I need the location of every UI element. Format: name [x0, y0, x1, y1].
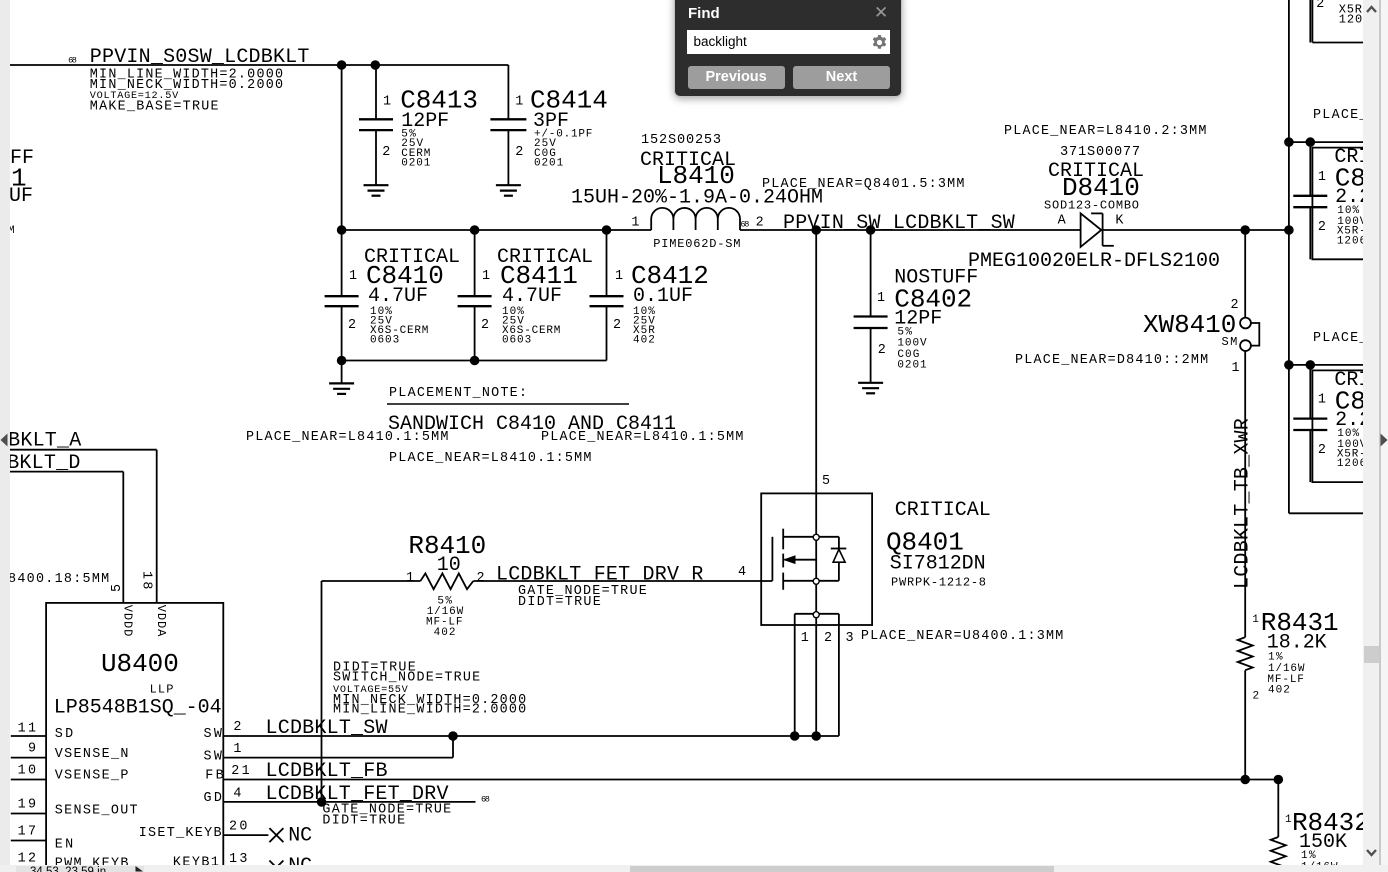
wire net LCDBKLT_FET_DRV: [223, 801, 475, 803]
junction dot LCDBKLT_SW x453: [449, 732, 458, 741]
ground below C8410: [329, 361, 354, 394]
value SI7812DN: [890, 552, 986, 575]
property text DIDT=TRUE (gate): [518, 595, 601, 610]
svg-text:PLACE_NEAR=Q8401.5:3MM: PLACE_NEAR=Q8401.5:3MM: [762, 177, 964, 192]
svg-text:SOD123-COMBO: SOD123-COMBO: [1044, 199, 1139, 213]
wire Q8401 pin2 to LCDBKLT_SW: [815, 625, 817, 736]
IC U8400 pin 13 no-connect: [223, 852, 312, 872]
capacitor C8402: [854, 230, 979, 383]
svg-text:LP8548B1SQ_-04: LP8548B1SQ_-04: [54, 697, 222, 720]
vertical scrollbar down arrow: [1365, 847, 1378, 859]
Find dialog search input: [687, 30, 890, 55]
IC U8400 pin 19 SENSE_OUT: [11, 798, 138, 819]
partial left-edge value UF: [9, 185, 33, 208]
wire stub to right cap group 2: [1289, 364, 1388, 366]
svg-text:1: 1: [877, 291, 885, 306]
svg-text:1/16W: 1/16W: [1268, 663, 1305, 675]
svg-text:PLACE_NEAR=L8410.2:3MM: PLACE_NEAR=L8410.2:3MM: [1004, 124, 1206, 139]
svg-text:PLACE_NEAR=L8410.1:5MM: PLACE_NEAR=L8410.1:5MM: [541, 430, 743, 445]
wire net PPVIN_S0SW_LCDBKLT top rail: [10, 64, 508, 66]
svg-text:402: 402: [633, 335, 655, 347]
net label LCDBKLT_FET_DRV: [266, 783, 490, 806]
svg-text:0201: 0201: [401, 158, 431, 170]
svg-text:LCDBKLT_TB_XWR: LCDBKLT_TB_XWR: [1232, 418, 1255, 589]
property text MAKE_BASE=TRUE: [90, 99, 219, 114]
wire net BKLT_A to VDDA: [10, 450, 157, 603]
wire main rail PPVIN_SW_LCDBKLT_SW: [342, 229, 1289, 231]
capacitor C8414: [490, 65, 607, 185]
svg-text:LCDBKLT_FB: LCDBKLT_FB: [266, 760, 388, 783]
svg-text:0201: 0201: [534, 158, 564, 170]
window right gutter: [1381, 0, 1388, 872]
svg-text:1: 1: [233, 742, 241, 757]
svg-text:0603: 0603: [370, 335, 399, 347]
wire net LCDBKLT_FB: [223, 779, 1278, 781]
wire pin 1 SW to LCDBKLT_SW: [223, 736, 453, 758]
junction dot at top rail x341: [337, 61, 346, 70]
svg-text:21: 21: [231, 764, 249, 779]
transistor Q8401 (MOSFET with body diode): [761, 493, 872, 646]
svg-text:FB: FB: [205, 769, 223, 784]
svg-text:PLACE_NEAR=U8400.1:3MM: PLACE_NEAR=U8400.1:3MM: [861, 629, 1063, 644]
junction dot FB rail x1278: [1274, 775, 1283, 784]
svg-text:NC: NC: [288, 825, 312, 848]
svg-text:SI7812DN: SI7812DN: [890, 552, 986, 575]
svg-text:2: 2: [613, 318, 621, 333]
IC U8400 right pin name FB y778.5: [205, 769, 223, 784]
svg-text:0201: 0201: [897, 359, 927, 371]
svg-text:19: 19: [18, 798, 36, 813]
junction dot cap group 1 lead: [1306, 138, 1315, 147]
svg-text:2: 2: [756, 215, 764, 230]
svg-text:20: 20: [229, 820, 247, 835]
Previous button: [688, 66, 785, 89]
wire LCDBKLT_FET_DRV to R8410: [322, 581, 421, 802]
svg-text:BKLT_D: BKLT_D: [7, 452, 80, 475]
IC U8400 pin 9 VSENSE_N: [11, 742, 129, 762]
IC U8400 right pin name SW y759.7: [204, 750, 223, 765]
capacitor C8412: [590, 230, 709, 361]
svg-text:A: A: [1058, 214, 1067, 229]
svg-text:1%: 1%: [1301, 850, 1316, 862]
svg-text:68: 68: [68, 56, 77, 66]
IC U8400 right pin name ISET_KEYB y836.2: [139, 826, 222, 841]
net label LCDBKLT_FB: [266, 760, 388, 783]
svg-text:4.7UF: 4.7UF: [368, 285, 428, 308]
svg-text:2: 2: [481, 318, 489, 333]
ground below C8402: [858, 383, 883, 394]
placement text PLACE_NEAR=L8410.1:5MM (lower): [389, 451, 591, 466]
junction dot main rail x870 (C8402): [866, 226, 875, 235]
svg-text:1: 1: [1232, 361, 1240, 376]
net label BKLT_A (cut): [8, 430, 81, 453]
refdes U8400: [101, 649, 179, 679]
package PWRPK-1212-8: [891, 576, 986, 590]
capacitor group top-right (cut off): [1310, 0, 1388, 43]
svg-text:2: 2: [477, 571, 485, 586]
junction dot main rail x816 (Q8401 drain): [812, 226, 821, 235]
property text VOLTAGE=12.5V: [90, 91, 179, 102]
partial left-edge text M: [8, 225, 15, 237]
svg-text:1: 1: [482, 269, 490, 284]
horizontal scrollbar thumb: [630, 866, 1054, 872]
junction dot main rail x1288 (right bus): [1285, 226, 1294, 235]
svg-text:PWRPK-1212-8: PWRPK-1212-8: [891, 576, 986, 590]
label LLP: [150, 682, 174, 696]
pan arrow left: [0, 433, 8, 447]
junction dot main rail x474: [470, 226, 479, 235]
Find dialog close button: [874, 6, 888, 20]
pin number 2 (SW): [233, 720, 241, 735]
svg-text:2: 2: [878, 343, 886, 358]
svg-text:MIN_LINE_WIDTH=2.0000: MIN_LINE_WIDTH=2.0000: [333, 703, 526, 718]
capacitor C8411: [458, 230, 593, 361]
wire net LCDBKLT_SW: [223, 735, 839, 737]
pin name VDDA: [154, 605, 168, 637]
svg-text:0603: 0603: [502, 335, 531, 347]
svg-text:BKLT_A: BKLT_A: [8, 430, 81, 453]
svg-text:SENSE_OUT: SENSE_OUT: [55, 804, 138, 819]
wire bottom rail C8410-C8412: [342, 360, 607, 362]
svg-text:5: 5: [822, 474, 830, 489]
pin number 4 (GD): [233, 787, 241, 802]
junction dot LCDBKLT_FET_DRV x321: [317, 798, 326, 807]
svg-text:PLACE_NEAR=D8410::2MM: PLACE_NEAR=D8410::2MM: [1015, 353, 1208, 368]
viewer left margin: [0, 0, 10, 872]
note underline: [387, 403, 629, 405]
pin number 1 (SW): [233, 742, 241, 757]
svg-text:MAKE_BASE=TRUE: MAKE_BASE=TRUE: [90, 99, 219, 114]
svg-text:9: 9: [28, 742, 36, 757]
svg-text:2: 2: [824, 631, 832, 646]
svg-text:SM: SM: [1222, 335, 1238, 349]
svg-text:402: 402: [434, 627, 456, 639]
net label LCDBKLT_FET_DRV_R: [496, 564, 746, 587]
junction dot cap group 2 lead: [1306, 361, 1315, 370]
svg-text:18: 18: [139, 571, 154, 589]
svg-text:2: 2: [1231, 298, 1239, 313]
svg-text:1: 1: [1318, 393, 1326, 408]
Next button: [793, 66, 890, 89]
property text MIN_NECK_WIDTH=0.2000: [90, 78, 283, 93]
svg-text:1: 1: [1252, 614, 1259, 626]
property text DIDT=TRUE (FET_DRV): [322, 814, 405, 829]
gear icon: [872, 35, 887, 50]
Find dialog title: [688, 5, 720, 22]
svg-text:11: 11: [18, 722, 36, 737]
junction dot FB rail x1245: [1241, 775, 1250, 784]
mouse cursor mark: [135, 866, 144, 872]
resistor R8432: [1271, 780, 1370, 872]
property text MIN_NECK_WIDTH=0.2000 (switch node): [333, 693, 526, 708]
svg-text:1: 1: [383, 94, 391, 109]
svg-text:PLACEMENT_NOTE:: PLACEMENT_NOTE:: [389, 386, 527, 401]
wire net LCDBKLT_TB_XWR vertical: [1244, 351, 1246, 637]
svg-text:1: 1: [801, 631, 809, 646]
partial left-edge component text FF: [10, 147, 34, 170]
label Q8401 CRITICAL: [895, 499, 991, 522]
svg-text:1: 1: [631, 215, 639, 230]
svg-text:2: 2: [382, 145, 390, 160]
placement text PLACE_NEAR=L8410.2:3MM: [1004, 124, 1206, 139]
svg-text:PPVIN_S0SW_LCDBKLT: PPVIN_S0SW_LCDBKLT: [90, 46, 310, 69]
resistor R8431: [1238, 608, 1339, 703]
vertical scrollbar thumb: [1364, 646, 1379, 663]
svg-text:VDDD: VDDD: [121, 605, 135, 637]
net label BKLT_D (cut): [7, 452, 80, 475]
svg-text:371S00077: 371S00077: [1060, 145, 1140, 160]
svg-text:1: 1: [349, 269, 357, 284]
svg-text:2: 2: [515, 145, 523, 160]
capacitor right group 1 (cut off): [1293, 142, 1388, 259]
placement text PLACE_NEAR=L8410.1:5MM (right): [541, 430, 743, 445]
property text GATE_NODE=TRUE (FET_DRV): [322, 803, 451, 818]
wire main rail to Q8401 drain pin 5: [816, 230, 830, 536]
svg-text:5: 5: [110, 584, 125, 592]
net label LCDBKLT_TB_XWR (vertical): [1232, 418, 1255, 589]
svg-text:VSENSE_P: VSENSE_P: [55, 769, 129, 784]
svg-text:152S00253: 152S00253: [641, 133, 721, 148]
capacitor C8410: [325, 230, 460, 361]
value LP8548B1SQ_-04: [54, 697, 222, 720]
wire Q8401 pin1 to LCDBKLT_SW: [794, 625, 796, 736]
svg-text:GD: GD: [204, 791, 222, 806]
property text MIN_LINE_WIDTH=2.0000: [90, 68, 283, 83]
wire R8431 to LCDBKLT_FB rail: [1244, 670, 1246, 779]
wire Q8401 pin3 to LCDBKLT_SW: [838, 625, 840, 736]
property text MIN_LINE_WIDTH=2.0000 (switch node): [333, 703, 526, 718]
IC U8400 pin 10 VSENSE_P: [11, 764, 129, 784]
svg-text:EN: EN: [55, 838, 73, 853]
pin number 18 (VDDA): [139, 571, 154, 589]
svg-text:CRITICAL: CRITICAL: [895, 499, 991, 522]
diode D8410: [968, 145, 1220, 273]
svg-text:PIME062D-SM: PIME062D-SM: [653, 237, 740, 251]
capacitor right group 2 (cut off): [1293, 365, 1388, 482]
pin name VDDD: [121, 605, 135, 637]
svg-text:4: 4: [738, 565, 746, 580]
svg-text:68: 68: [741, 220, 750, 230]
IC U8400 pin 20 no-connect: [223, 820, 312, 848]
svg-text:PMEG10020ELR-DFLS2100: PMEG10020ELR-DFLS2100: [968, 250, 1220, 273]
vertical scrollbar track: [1363, 0, 1380, 865]
net label PPVIN_S0SW_LCDBKLT: [68, 46, 309, 69]
svg-text:3: 3: [846, 631, 854, 646]
svg-text:100V: 100V: [897, 338, 927, 350]
IC U8400 pin 11 SD: [11, 722, 73, 743]
svg-text:17: 17: [18, 825, 36, 840]
svg-text:402: 402: [1268, 685, 1290, 697]
window edge line: [1379, 0, 1380, 872]
note PLACEMENT_NOTE:: [389, 386, 527, 401]
capacitor C8413: [359, 65, 478, 185]
svg-text:1: 1: [1285, 814, 1292, 826]
net label LCDBKLT_SW: [266, 717, 388, 740]
junction dot bottom rail x341: [337, 356, 346, 365]
svg-text:10: 10: [18, 764, 36, 779]
svg-text:SWITCH_NODE=TRUE: SWITCH_NODE=TRUE: [333, 671, 480, 686]
svg-text:PLACE_NEAR=L8410.1:5MM: PLACE_NEAR=L8410.1:5MM: [246, 430, 448, 445]
svg-text:1%: 1%: [1268, 652, 1283, 664]
svg-text:10: 10: [437, 554, 461, 577]
connector XW8410: [1143, 230, 1259, 376]
svg-text:2: 2: [348, 318, 356, 333]
svg-text:U8400: U8400: [101, 649, 179, 679]
net label PPVIN_SW_LCDBKLT_SW: [783, 212, 1015, 235]
placement text PLACE_NEAR=U8400.1:3MM: [861, 629, 1063, 644]
wire right vertical bus: [1289, 0, 1388, 513]
svg-text:K: K: [1115, 214, 1124, 229]
junction dot bottom rail x474: [470, 356, 479, 365]
placement text PLACE_NEAR=Q8401.5:3MM: [762, 177, 964, 192]
resistor R8410: [406, 531, 486, 639]
svg-text:PPVIN_SW_LCDBKLT_SW: PPVIN_SW_LCDBKLT_SW: [783, 212, 1015, 235]
placement text PLACE_NEAR=D8410::2MM: [1015, 353, 1208, 368]
pan arrow right: [1380, 433, 1388, 447]
svg-text:2: 2: [1318, 443, 1326, 458]
IC U8400 pin 12 PWM_KEYB: [11, 852, 129, 872]
svg-text:1: 1: [615, 269, 623, 284]
junction dot SW rail x794: [790, 732, 799, 741]
pin number 21 (FB): [231, 764, 249, 779]
svg-text:DIDT=TRUE: DIDT=TRUE: [518, 595, 601, 610]
svg-text:2: 2: [1318, 220, 1326, 235]
partial left-edge refdes 1: [11, 164, 27, 194]
IC U8400 pin 17 EN: [11, 825, 73, 853]
wire stub to right cap group 1: [1289, 141, 1388, 143]
junction dot main rail x606: [602, 226, 611, 235]
svg-text:UF: UF: [9, 185, 33, 208]
IC U8400 right pin name KEYB1 y865.7: [173, 856, 219, 871]
junction dot at top rail x375: [371, 61, 380, 70]
svg-text:2: 2: [1316, 0, 1324, 12]
junction dot SW rail x816: [812, 732, 821, 741]
property text VOLTAGE=55V: [333, 685, 409, 696]
Find dialog: [674, 0, 902, 97]
svg-text:2: 2: [233, 720, 241, 735]
svg-text:VSENSE_N: VSENSE_N: [55, 747, 129, 762]
IC U8400 right pin name GD y800.9: [204, 791, 222, 806]
svg-text:LLP: LLP: [150, 682, 174, 696]
ground below C8414: [496, 185, 521, 196]
svg-text:LCDBKLT_SW: LCDBKLT_SW: [266, 717, 388, 740]
junction dot right bus y142: [1285, 138, 1294, 147]
svg-text:68: 68: [481, 794, 490, 804]
svg-text:SW: SW: [204, 750, 223, 765]
horizontal scrollbar track: [0, 865, 1388, 872]
wire net BKLT_D to VDDD: [10, 472, 123, 603]
svg-text:1: 1: [515, 94, 523, 109]
placement text PLACE_NEAR (right group 1): [1313, 108, 1388, 123]
junction dot main rail x1245 (XW8410): [1241, 226, 1250, 235]
inductor L8410: [571, 133, 823, 251]
IC U8400 body: [46, 603, 223, 872]
svg-text:5%: 5%: [897, 326, 912, 338]
note SANDWICH C8410 AND C8411: [388, 413, 676, 436]
placement text 8400.18:5MM (cut): [8, 572, 109, 587]
placement text PLACE_NEAR=L8410.1:5MM (left): [246, 430, 448, 445]
svg-text:2: 2: [1253, 691, 1260, 703]
svg-text:PLACE_NEAR=L8410.1:5MM: PLACE_NEAR=L8410.1:5MM: [389, 451, 591, 466]
svg-text:1: 1: [1318, 170, 1326, 185]
junction dot right bus y364: [1285, 361, 1294, 370]
IC U8400 right pin name SW y737: [204, 727, 223, 742]
svg-text:DIDT=TRUE: DIDT=TRUE: [322, 814, 405, 829]
vertical scrollbar up arrow: [1365, 3, 1378, 15]
ground below C8413: [364, 185, 389, 196]
property text GATE_NODE=TRUE (gate): [518, 584, 647, 599]
wire R8410 to Q8401 gate: [473, 580, 772, 582]
svg-text:4.7UF: 4.7UF: [502, 285, 562, 308]
pin number 5 (VDDD): [110, 584, 125, 592]
status coordinates readout (clipped): [16, 866, 144, 872]
svg-text:SW: SW: [204, 727, 223, 742]
refdes Q8401: [886, 528, 964, 558]
junction dot main rail x341: [337, 226, 346, 235]
placement text PLACE_NEAR (right group 2): [1313, 331, 1388, 346]
svg-text:VDDA: VDDA: [154, 605, 168, 637]
property text DIDT=TRUE (switch node): [333, 660, 416, 675]
svg-text:1: 1: [406, 571, 414, 586]
property text SWITCH_NODE=TRUE: [333, 671, 480, 686]
svg-text:SD: SD: [55, 727, 73, 742]
svg-text:8400.18:5MM: 8400.18:5MM: [8, 572, 109, 587]
svg-text:0.1UF: 0.1UF: [633, 285, 693, 308]
svg-text:4: 4: [233, 787, 241, 802]
wire vertical x341 top rail to main rail: [341, 65, 343, 230]
svg-text:ISET_KEYB: ISET_KEYB: [139, 826, 222, 841]
